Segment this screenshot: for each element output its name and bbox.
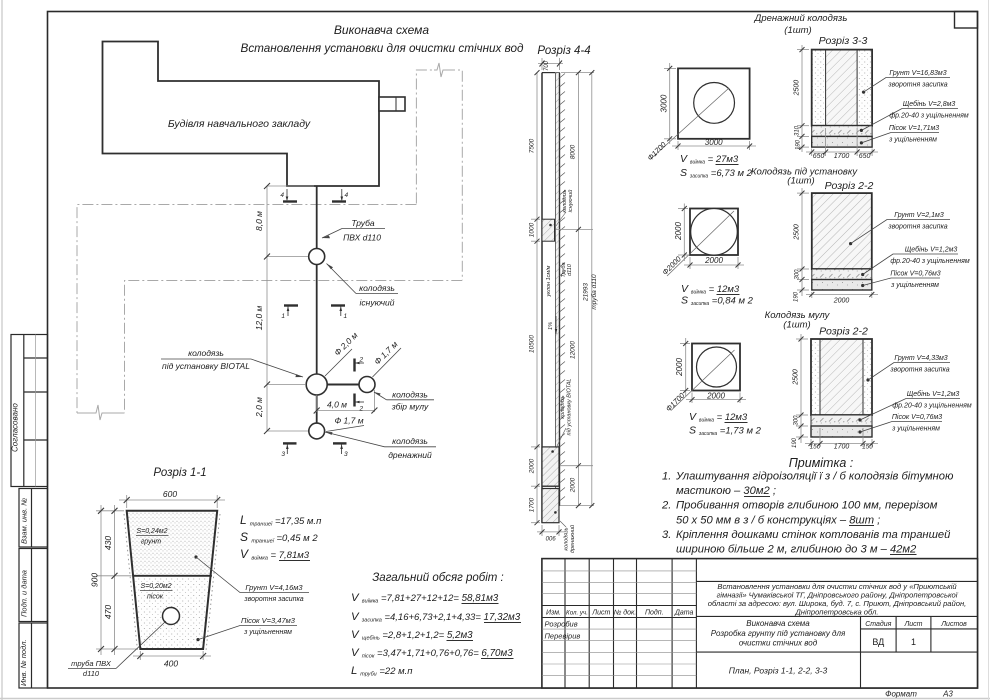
- existing well: [309, 249, 325, 265]
- label щебінь 3-3: [860, 129, 863, 132]
- svg-text:з ущільненням: з ущільненням: [243, 628, 292, 636]
- svg-text:Взам. инв. №: Взам. инв. №: [20, 498, 29, 544]
- section marker 2 top: [355, 359, 365, 372]
- svg-text:3: 3: [344, 451, 348, 458]
- svg-text:2000: 2000: [674, 222, 683, 241]
- dim 2000 bottom (mud): [686, 393, 746, 404]
- svg-text:фр.20-40 з ущільненням: фр.20-40 з ущільненням: [890, 257, 970, 265]
- svg-text:Розріз 4-4: Розріз 4-4: [537, 45, 590, 57]
- svg-text:150: 150: [810, 444, 821, 451]
- svg-text:Виконавча схема: Виконавча схема: [334, 23, 429, 37]
- svg-text:300: 300: [794, 415, 800, 426]
- section marker 3 left: [283, 443, 297, 454]
- svg-text:Грунт V=2,1м3: Грунт V=2,1м3: [894, 212, 944, 219]
- svg-text:8000: 8000: [570, 144, 577, 159]
- ground surface line: [559, 73, 561, 506]
- svg-text:1: 1: [911, 637, 916, 647]
- gravel layer mud: [811, 415, 872, 426]
- svg-text:Кол. уч.: Кол. уч.: [566, 610, 588, 617]
- svg-text:S=0,24м2: S=0,24м2: [136, 528, 167, 535]
- profile trench strip: [542, 73, 555, 523]
- dims bottom 3-3: [806, 128, 878, 156]
- mud well plan square: [692, 344, 740, 391]
- drainage well plan square: [678, 68, 750, 138]
- svg-text:колодязь: колодязь: [560, 395, 566, 418]
- svg-text:колодязь: колодязь: [188, 348, 224, 358]
- svg-text:900: 900: [545, 534, 556, 540]
- dims left 3-3: [797, 45, 809, 152]
- svg-text:3.: 3.: [662, 529, 671, 541]
- section marker 4 left: [283, 189, 297, 202]
- building porch detail: [379, 97, 405, 111]
- svg-text:V виїмка = 12м3: V виїмка = 12м3: [689, 411, 748, 424]
- svg-text:2000: 2000: [833, 298, 850, 305]
- dim 2000 left (mud): [680, 338, 690, 396]
- svg-text:Щебінь V=1,2м3: Щебінь V=1,2м3: [905, 246, 958, 254]
- section marker 4 right: [332, 189, 346, 202]
- leader Пісок V=3,47м3: [196, 638, 199, 641]
- svg-text:3000: 3000: [660, 94, 669, 112]
- section marker 2 bottom: [355, 394, 365, 407]
- dim 3000 left: [664, 63, 676, 144]
- dim 700 top: [538, 58, 563, 70]
- svg-text:400: 400: [164, 659, 178, 669]
- leader Грунт V=4,16м3: [194, 555, 197, 558]
- svg-text:Загальний обсяг робіт :: Загальний обсяг робіт :: [372, 572, 504, 584]
- pipe to mud well: [317, 384, 367, 386]
- svg-text:Розріз 3-3: Розріз 3-3: [819, 35, 868, 47]
- svg-text:7500: 7500: [529, 138, 536, 153]
- svg-text:Будівля навчального закладу: Будівля навчального закладу: [168, 118, 311, 130]
- svg-text:Щебінь V=1,2м3: Щебінь V=1,2м3: [907, 390, 960, 398]
- svg-text:2500: 2500: [794, 80, 801, 97]
- existing well block in profile: [542, 219, 555, 241]
- title block outer: [542, 559, 978, 688]
- svg-text:(1шт): (1шт): [783, 320, 810, 331]
- svg-text:d110: d110: [567, 263, 573, 276]
- svg-text:S=0,20м2: S=0,20м2: [140, 583, 171, 590]
- left dims 430 470 900: [96, 505, 138, 655]
- svg-text:Примітка :: Примітка :: [789, 456, 854, 470]
- svg-text:під установку BIOTAL: під установку BIOTAL: [567, 379, 573, 436]
- label пісок 3-3: [860, 141, 863, 144]
- right part dividers: [696, 581, 977, 688]
- svg-text:2000: 2000: [675, 358, 684, 377]
- svg-text:Дренажний колодязь: Дренажний колодязь: [754, 13, 848, 24]
- section marker 1 right: [331, 306, 345, 317]
- svg-text:пісок: пісок: [147, 593, 164, 601]
- BIOTAL well block in profile: [542, 447, 559, 486]
- dim 900 bottom of profile: [537, 525, 564, 536]
- svg-text:збір мулу: збір мулу: [391, 402, 429, 412]
- svg-text:Розробив: Розробив: [545, 620, 578, 629]
- svg-text:2: 2: [359, 406, 364, 413]
- left margin stamp: Согласовано block: [11, 335, 48, 487]
- svg-text:з ущільненням: з ущільненням: [891, 425, 940, 433]
- svg-text:(1шт): (1шт): [784, 25, 811, 36]
- label щебінь 2-2 installation: [861, 273, 864, 276]
- svg-text:Виконавча схема: Виконавча схема: [746, 619, 810, 628]
- svg-text:існуючий: існуючий: [567, 190, 574, 213]
- left margin stamp: Подп. и дата block: [19, 549, 48, 622]
- svg-text:4: 4: [345, 192, 349, 199]
- svg-text:1700: 1700: [834, 444, 850, 451]
- BIOTAL well: [306, 374, 327, 395]
- break symbol top: [434, 63, 444, 77]
- svg-text:650: 650: [813, 153, 825, 160]
- svg-text:2000: 2000: [704, 256, 723, 265]
- left dim chain of profile: [531, 73, 540, 523]
- svg-text:очистки стічних вод: очистки стічних вод: [739, 639, 818, 648]
- left margin stamp: Взам. инв. № block: [19, 489, 48, 548]
- svg-text:Лист: Лист: [591, 610, 610, 617]
- svg-text:Лист: Лист: [903, 621, 922, 628]
- svg-text:600: 600: [163, 489, 177, 499]
- svg-text:колодязь: колодязь: [359, 283, 395, 293]
- svg-text:650: 650: [859, 153, 871, 160]
- svg-text:d110: d110: [83, 669, 100, 678]
- svg-text:4,0 м: 4,0 м: [327, 400, 347, 410]
- sand layer mud: [811, 426, 872, 437]
- svg-text:Встановлення установки для очи: Встановлення установки для очистки стічн…: [241, 42, 524, 55]
- section marker 3 right: [333, 443, 347, 454]
- svg-text:1: 1: [281, 313, 285, 320]
- boundary dash-dot top right with break: [77, 70, 462, 413]
- svg-text:Подп.: Подп.: [645, 609, 664, 617]
- title block revision columns: [542, 559, 697, 688]
- svg-text:колодязь: колодязь: [392, 390, 428, 400]
- svg-text:Перевірив: Перевірив: [545, 632, 581, 641]
- svg-text:Труба: Труба: [351, 218, 375, 228]
- svg-text:колодязь: колодязь: [392, 436, 428, 446]
- trench trapezoid top soil part: [127, 511, 218, 576]
- dim 4,0 м: [317, 390, 375, 412]
- trapezoid outline: [127, 511, 218, 649]
- svg-text:Кріплення дошками стінок котло: Кріплення дошками стінок котлованів та т…: [676, 529, 950, 541]
- svg-text:Ф 1,7 м: Ф 1,7 м: [334, 416, 363, 426]
- svg-text:Пісок V=0,76м3: Пісок V=0,76м3: [892, 413, 942, 421]
- svg-text:Пробивання отворів глибиною 1: Пробивання отворів глибиною 100 мм, пере…: [676, 500, 938, 512]
- section marker 1 left: [284, 306, 298, 317]
- svg-text:Инв. № подл.: Инв. № подл.: [19, 639, 28, 686]
- svg-text:План, Розріз 1-1, 2-2, 3-3: План, Розріз 1-1, 2-2, 3-3: [729, 666, 828, 676]
- section 2-2 body (installation): [812, 193, 872, 269]
- svg-text:Пісок V=1,71м3: Пісок V=1,71м3: [889, 124, 939, 132]
- svg-text:існуючий: існуючий: [360, 298, 395, 308]
- svg-text:мастикою – 30м2 ;: мастикою – 30м2 ;: [676, 485, 776, 497]
- right dim chain 8000/12000/2000: [556, 73, 594, 506]
- dim 400 bottom: [133, 651, 211, 660]
- total dim 21993: [591, 73, 593, 506]
- svg-text:4: 4: [280, 192, 284, 199]
- svg-text:зворотня засипка: зворотня засипка: [243, 596, 303, 603]
- svg-text:Стадия: Стадия: [865, 620, 891, 628]
- svg-text:1.: 1.: [662, 471, 671, 483]
- svg-text:Щебінь V=2,8м3: Щебінь V=2,8м3: [903, 100, 956, 108]
- svg-text:1700: 1700: [834, 153, 850, 160]
- section 3-3 body: [812, 50, 826, 126]
- svg-text:Листов: Листов: [940, 621, 967, 628]
- svg-text:470: 470: [103, 605, 113, 619]
- svg-text:фр.20-40 з ущільненням: фр.20-40 з ущільненням: [889, 112, 969, 120]
- svg-text:під установку BIOTAL: під установку BIOTAL: [162, 361, 250, 371]
- svg-text:12000: 12000: [570, 341, 577, 359]
- svg-text:2500: 2500: [794, 224, 801, 241]
- dim 2000 bottom (installation): [684, 257, 744, 269]
- svg-text:(1шт): (1шт): [787, 176, 814, 187]
- svg-text:А3: А3: [942, 690, 953, 699]
- drainage well: [309, 423, 325, 439]
- svg-text:310: 310: [795, 125, 801, 136]
- divider between wells: [542, 485, 559, 487]
- svg-text:Согласовано: Согласовано: [11, 403, 20, 452]
- label щебінь mud: [858, 418, 861, 421]
- svg-text:1: 1: [344, 313, 348, 320]
- soil ticks outside slopes: [124, 514, 138, 651]
- trench trapezoid bottom sand part: [134, 576, 212, 649]
- svg-text:V виїмка = 7,81м3: V виїмка = 7,81м3: [240, 547, 310, 562]
- dim 2000 bottom 2-2 installation: [806, 292, 878, 298]
- svg-text:1700: 1700: [529, 497, 536, 512]
- label грунт 3-3: [862, 91, 865, 94]
- sewer pipe vertical run: [316, 186, 318, 431]
- svg-text:21993: 21993: [583, 283, 590, 302]
- svg-text:шириною більше 2 м, глибиною: шириною більше 2 м, глибиною до 3 м – 42…: [676, 544, 917, 556]
- svg-text:2.: 2.: [661, 500, 671, 512]
- svg-text:2,0 м: 2,0 м: [254, 397, 264, 418]
- sand layer 2-2: [812, 280, 872, 291]
- svg-text:Дніпропетровська обл.: Дніпропетровська обл.: [794, 607, 878, 616]
- svg-text:Улаштування гідроізоляції ї з: Улаштування гідроізоляції ї з / б колодя…: [675, 471, 954, 483]
- svg-text:1%: 1%: [548, 322, 554, 330]
- svg-text:190: 190: [794, 291, 800, 302]
- svg-text:12,0 м: 12,0 м: [254, 305, 264, 330]
- svg-text:уклон 1см/м: уклон 1см/м: [546, 265, 552, 297]
- svg-text:з ущільненням: з ущільненням: [888, 136, 937, 144]
- svg-text:зворотня засипка: зворотня засипка: [887, 224, 947, 231]
- plan dimension chain: [267, 186, 314, 431]
- profile pipe band: [556, 73, 560, 506]
- building outline: [103, 42, 380, 187]
- svg-text:Пісок V=0,76м3: Пісок V=0,76м3: [890, 270, 940, 278]
- svg-text:430: 430: [103, 536, 113, 550]
- svg-text:ПВХ d110: ПВХ d110: [343, 233, 381, 243]
- svg-text:Грунт V=4,16м3: Грунт V=4,16м3: [245, 583, 303, 592]
- drainage well plan circle: [694, 83, 735, 124]
- installation well plan circle: [691, 209, 738, 256]
- section 2-2 body (mud): [811, 339, 820, 415]
- svg-text:дренажний: дренажний: [569, 525, 576, 553]
- svg-text:190: 190: [796, 139, 802, 150]
- svg-text:190: 190: [792, 437, 798, 448]
- svg-text:3: 3: [281, 451, 285, 458]
- svg-text:Формат: Формат: [885, 690, 917, 699]
- dim 2000 left (installation): [678, 204, 688, 262]
- svg-text:2000: 2000: [706, 391, 725, 400]
- svg-text:300: 300: [795, 269, 801, 280]
- svg-text:700: 700: [544, 60, 550, 71]
- svg-text:150: 150: [862, 444, 873, 451]
- svg-text:50 х 50 мм в з / б конструк: 50 х 50 мм в з / б конструкціях – 8шт ;: [676, 515, 880, 527]
- svg-text:V пісок =3,47+1,71+0,76+0,76=: V пісок =3,47+1,71+0,76+0,76= 6,70м3: [351, 647, 513, 660]
- svg-text:2000: 2000: [529, 458, 536, 474]
- svg-text:Изм.: Изм.: [546, 610, 561, 617]
- break line bottom left: [77, 405, 125, 420]
- label грунт mud: [866, 378, 869, 381]
- svg-text:зворотня засипка: зворотня засипка: [887, 82, 947, 89]
- dims bottom mud: [805, 428, 878, 447]
- svg-text:колодязь: колодязь: [564, 527, 570, 550]
- gravel layer 2-2: [812, 269, 872, 280]
- pipe circle in trench: [163, 608, 180, 625]
- layer divider: [134, 575, 212, 577]
- diagonal leader: [671, 350, 735, 411]
- mud well plan circle: [697, 347, 737, 387]
- svg-text:Подп. и дата: Подп. и дата: [20, 570, 29, 617]
- svg-text:3000: 3000: [705, 138, 723, 147]
- dim 600 top: [119, 495, 225, 508]
- svg-text:зворотня засипка: зворотня засипка: [889, 367, 949, 374]
- dims left 2-2 installation: [797, 188, 809, 296]
- dims left mud: [796, 334, 808, 443]
- ground hatch ticks: [560, 74, 566, 502]
- svg-text:Розріз 1-1: Розріз 1-1: [153, 467, 206, 479]
- svg-text:V виїмка = 27м3: V виїмка = 27м3: [680, 153, 739, 166]
- format box top-right: [955, 12, 978, 29]
- mud collection well: [359, 377, 375, 393]
- svg-text:з ущільненням: з ущільненням: [890, 281, 939, 289]
- diagonal leader: [667, 211, 734, 276]
- svg-text:Дата: Дата: [674, 610, 694, 617]
- svg-text:ВД: ВД: [872, 637, 884, 647]
- svg-text:Грунт V=16,83м3: Грунт V=16,83м3: [889, 70, 946, 77]
- label пісок 2-2 installation: [861, 284, 864, 287]
- dim 3000 bottom: [672, 141, 756, 150]
- svg-text:фр.20-40 з ущільненням: фр.20-40 з ущільненням: [892, 402, 972, 410]
- svg-text:Розріз 2-2: Розріз 2-2: [819, 326, 868, 338]
- svg-text:Розробка грунту під установку: Розробка грунту під установку для: [711, 629, 846, 638]
- svg-text:2: 2: [359, 357, 364, 364]
- svg-text:1000: 1000: [529, 222, 536, 237]
- left margin stamp: Инв. № подл. block: [19, 623, 48, 688]
- installation well plan square: [690, 209, 738, 256]
- svg-text:дренажний: дренажний: [388, 450, 432, 460]
- svg-text:труба ПВХ: труба ПВХ: [71, 659, 112, 668]
- gravel layer 3-3: [812, 126, 872, 137]
- drainage well block in profile: [542, 489, 559, 523]
- svg-text:Розріз 2-2: Розріз 2-2: [825, 180, 874, 192]
- sheet outer edge: [1, 0, 3, 700]
- svg-text:10500: 10500: [529, 335, 536, 353]
- svg-text:2000: 2000: [570, 477, 577, 493]
- sand layer 3-3: [812, 136, 872, 147]
- label пісок mud: [858, 430, 861, 433]
- svg-text:2500: 2500: [793, 369, 800, 386]
- svg-text:№ док.: № док.: [614, 609, 637, 617]
- svg-text:Пісок V=3,47м3: Пісок V=3,47м3: [241, 616, 296, 625]
- svg-text:грунт: грунт: [141, 539, 161, 546]
- svg-text:Грунт V=4,33м3: Грунт V=4,33м3: [894, 355, 947, 362]
- diagonal leader: [651, 88, 729, 159]
- svg-text:8,0 м: 8,0 м: [254, 211, 264, 231]
- svg-text:труба d110: труба d110: [590, 274, 598, 310]
- label грунт 2-2 installation: [849, 242, 852, 245]
- svg-text:900: 900: [90, 573, 100, 587]
